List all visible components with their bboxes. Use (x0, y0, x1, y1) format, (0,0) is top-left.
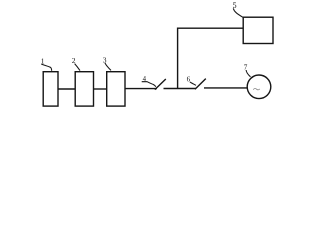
svg-text:1: 1 (41, 56, 45, 65)
svg-text:4: 4 (143, 76, 147, 83)
svg-text:2: 2 (72, 56, 76, 65)
svg-text:6: 6 (187, 75, 191, 83)
svg-text:7: 7 (244, 63, 248, 71)
svg-text:5: 5 (233, 1, 237, 10)
svg-text:3: 3 (103, 56, 107, 65)
